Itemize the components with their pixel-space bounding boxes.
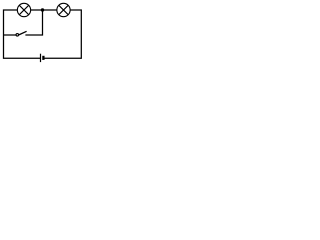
wire: middle rail right segment and mid vertical up to node A [25, 10, 42, 35]
wire: top rail segment (node A to lamp L2) [43, 9, 57, 11]
wire: left loop (top rail left segment, left vertical, bottom rail left segment) [4, 10, 41, 58]
wire: middle rail left segment (left vertical to switch) [4, 34, 17, 36]
switch S1 [16, 31, 27, 36]
battery B1 negative plate (short thick) [42, 56, 44, 60]
lamp L1 [17, 3, 30, 16]
node A (junction dot) [41, 8, 44, 11]
lamp L2 [57, 3, 70, 16]
battery B1 positive plate (long thin) [40, 54, 42, 62]
wire: right loop (top rail right segment, right vertical, bottom rail right segment) [44, 10, 81, 58]
wire: top rail middle segment (L1 to node A) [31, 9, 43, 11]
